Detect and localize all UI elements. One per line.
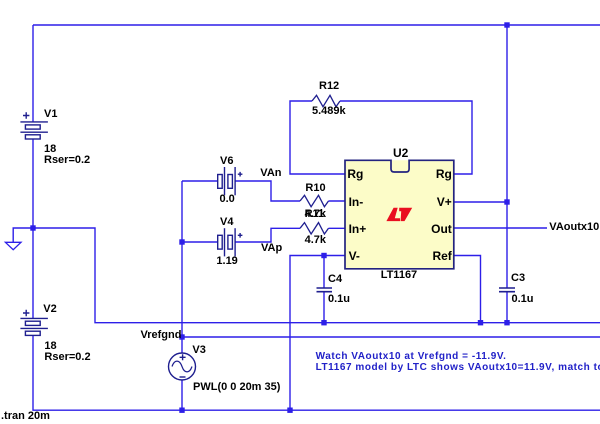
pin Ref	[432, 250, 451, 262]
battery V6	[218, 167, 243, 195]
value 0.0 (V6)	[220, 194, 235, 205]
value 4.7k (R10)	[305, 209, 326, 220]
capacitor C4	[317, 288, 333, 292]
label U2	[393, 147, 408, 159]
capacitor C3	[499, 288, 515, 292]
node VAp	[261, 243, 282, 254]
junction node dots	[30, 22, 509, 413]
wire C4 leads	[323, 256, 325, 323]
value 0.1u (C4)	[328, 294, 350, 305]
wire V6 to R10	[235, 181, 300, 201]
pin V-	[349, 250, 360, 262]
source V3	[169, 353, 196, 380]
wire R12 to Rg right	[340, 101, 472, 174]
battery V2	[20, 310, 48, 336]
wire C3 bottom lead	[506, 292, 508, 323]
wire V-	[290, 256, 345, 411]
wire V6/V4 left column	[181, 181, 183, 353]
label R10	[305, 183, 325, 194]
comment line 1	[316, 352, 507, 362]
label C3	[511, 273, 525, 284]
ground	[5, 242, 21, 249]
resistor R12	[312, 95, 340, 106]
wire V+	[454, 201, 507, 203]
label V1	[44, 109, 57, 120]
resistor R11	[300, 223, 329, 234]
wire V4 left lead	[182, 241, 218, 243]
node VAn	[260, 168, 281, 179]
wire R10 to In-	[329, 200, 346, 202]
wire V2 bottom + bottom rail	[33, 335, 600, 410]
wire V6 left lead	[182, 180, 218, 182]
label C4	[328, 274, 342, 285]
battery V1	[20, 112, 48, 139]
pin In-	[349, 196, 364, 208]
node Vrefgnd	[141, 330, 182, 341]
wire Rg left	[290, 101, 345, 174]
value 1.19 (V4)	[216, 256, 237, 267]
wire Vrefgnd rail	[182, 336, 600, 338]
label V3	[192, 345, 205, 356]
wire V3 bottom lead	[181, 380, 183, 410]
wire Out	[454, 227, 547, 229]
comment line 2	[316, 363, 600, 373]
wire gnd rail	[33, 228, 600, 323]
value Rser=0.2 (V1)	[44, 155, 90, 166]
value 5.489k (R12)	[312, 106, 346, 117]
label R11 (overlaps)	[305, 209, 325, 220]
value Rser=0.2 (V2)	[44, 352, 90, 363]
pin Rg left	[347, 168, 363, 180]
wire top rail	[33, 24, 600, 26]
wire Ref	[454, 256, 481, 323]
wire V1 bottom to V2 top	[32, 139, 34, 318]
label V2	[43, 304, 56, 315]
value 18 (V1)	[44, 144, 56, 155]
wire ground tap	[13, 228, 33, 242]
label R12	[319, 81, 339, 92]
wire V4 to R11	[235, 228, 300, 242]
value PWL (V3)	[193, 382, 280, 393]
wire V+ column	[506, 25, 508, 288]
pin In+	[349, 223, 367, 235]
node VAoutx10	[549, 222, 599, 233]
pin Out	[431, 223, 452, 235]
wire V1 top lead	[32, 25, 34, 122]
LT logo	[386, 208, 412, 221]
value LT1167	[381, 270, 418, 281]
resistor R10	[300, 195, 329, 206]
pin V+	[437, 196, 452, 208]
value 4.7k (R11)	[305, 235, 326, 246]
directive .tran	[1, 411, 50, 422]
label V6	[220, 156, 233, 167]
op-amp U2 box	[391, 160, 409, 172]
pin Rg right	[436, 168, 452, 180]
value 0.1u (C3)	[512, 294, 534, 305]
value 18 (V2)	[44, 341, 56, 352]
label V4	[220, 217, 233, 228]
battery V4	[218, 228, 243, 256]
wire R11 to In+	[329, 227, 346, 229]
